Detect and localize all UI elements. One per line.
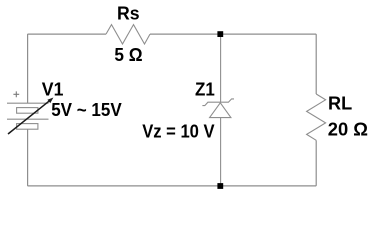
- battery long plate (bottom): [7, 118, 49, 120]
- plus polarity mark: [13, 91, 19, 97]
- resistor Rs: [106, 25, 150, 44]
- label Z1: [195, 79, 215, 100]
- wire: zener branch lower: [220, 118, 222, 186]
- svg-text:Z1: Z1: [195, 79, 215, 100]
- value Vz = 10 V: [142, 120, 215, 141]
- svg-text:20 Ω: 20 Ω: [328, 118, 368, 139]
- wire: left rail upper: [27, 34, 29, 103]
- wire: top rail left segment: [28, 33, 107, 35]
- svg-text:5 Ω: 5 Ω: [114, 44, 142, 65]
- value 5V ~ 15V: [51, 99, 122, 120]
- svg-text:5V ~ 15V: 5V ~ 15V: [51, 99, 122, 120]
- label Rs: [117, 2, 140, 23]
- resistor RL: [307, 94, 326, 140]
- variable-source arrow: [8, 100, 50, 134]
- value 5 &#937;: [114, 44, 142, 65]
- wire: right rail lower: [315, 140, 317, 186]
- value 20 &#937;: [328, 118, 368, 139]
- svg-text:RL: RL: [328, 93, 352, 114]
- junction: top node: [217, 31, 223, 37]
- battery short plate (rect, upper): [17, 108, 38, 114]
- label RL: [328, 93, 352, 114]
- wire: bottom rail: [28, 185, 317, 187]
- cathode bar with bent ends: [202, 99, 234, 106]
- battery short plate (rect, lower): [17, 124, 38, 130]
- battery long plate (top): [7, 102, 49, 104]
- svg-text:Vz = 10 V: Vz = 10 V: [142, 120, 215, 141]
- zener diode Z1: [202, 99, 234, 118]
- label V1: [42, 78, 64, 99]
- anode triangle: [210, 103, 231, 118]
- wire: zener branch upper: [220, 34, 222, 102]
- svg-text:Rs: Rs: [117, 2, 140, 23]
- wire: left rail lower: [27, 129, 29, 186]
- wire: right rail upper: [315, 34, 317, 94]
- svg-text:V1: V1: [42, 78, 64, 99]
- junction: bottom node: [217, 183, 223, 189]
- wire: top rail right segment: [150, 33, 316, 35]
- voltage source V1 (variable battery): [7, 91, 53, 134]
